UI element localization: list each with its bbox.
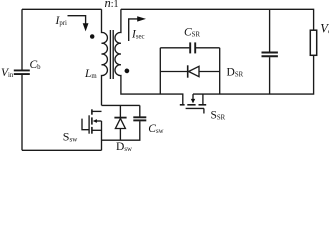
capacitor CSR [160,47,189,49]
wire bottom rail [22,149,102,151]
svg-text:n:1: n:1 [105,0,119,10]
wire snubber top node [102,104,140,106]
wire top-left rail [22,8,102,10]
MOSFET Ssw gate lead [82,119,89,130]
resistor Ro load [310,30,316,55]
clamp left leg [159,48,161,94]
capacitor Co [269,9,271,51]
wire left rail upper [21,9,23,69]
svg-text:Vin: Vin [1,67,14,79]
MOSFET Ssw drain lead [92,110,102,112]
svg-text:DSR: DSR [227,67,244,79]
current arrow Isec [129,19,139,41]
svg-text:Cb: Cb [30,59,42,71]
current arrow Ipri [68,16,86,24]
clamp right leg [219,48,221,94]
MOSFET Ssw channel [91,109,93,133]
wire Ssw source to bottom rail [101,121,103,150]
svg-text:Dsw: Dsw [116,141,132,153]
MOSFET Ssw gate bar [88,115,90,133]
svg-text:Isec: Isec [131,29,145,41]
svg-text:SSR: SSR [211,110,226,122]
MOSFET Ssw source lead [92,129,102,131]
svg-text:Ipri: Ipri [55,15,68,27]
polarity dot primary [90,34,95,39]
svg-text:Csw: Csw [148,123,163,135]
svg-text:Ssw: Ssw [63,129,78,143]
polarity dot secondary [125,69,130,74]
MOSFET SSR source lead [202,94,204,104]
wire secondary top rail [121,9,314,30]
svg-text:Lm: Lm [84,68,97,80]
diode DSR [160,71,187,73]
capacitor Csw [139,105,141,116]
transformer primary winding Lm [102,9,108,105]
wire left rail lower [21,75,23,150]
capacitor Cb [14,70,30,74]
transformer secondary winding [115,9,183,104]
MOSFET Ssw body arrow [93,119,97,123]
svg-text:Vo: Vo [320,22,329,36]
MOSFET SSR gate lead [203,108,205,113]
MOSFET SSR body arrow lead [192,94,194,99]
MOSFET SSR gate bar [186,107,204,109]
transformer core [109,30,111,79]
wire snubber bottom node [102,121,140,140]
svg-text:CSR: CSR [184,27,200,39]
diode Dsw [119,105,121,117]
MOSFET SSR channel [180,104,206,106]
MOSFET Ssw body lead [96,120,102,122]
wire secondary bottom rail right [193,55,314,94]
